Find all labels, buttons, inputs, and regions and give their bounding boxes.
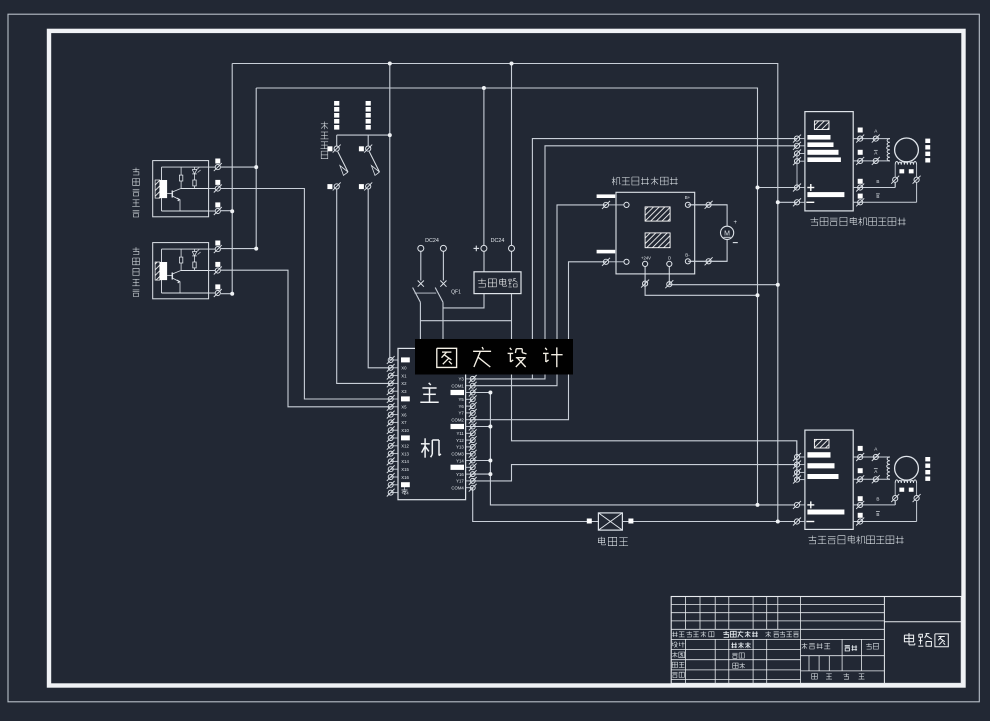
wire relay K2 row1 to bus2: [221, 248, 256, 250]
wire QF1 tie bar: [415, 292, 437, 294]
wire chip COM4 to solenoid valve to walking driver B-: [473, 488, 599, 522]
svg-text:X15: X15: [401, 467, 409, 472]
manipulator hatched block 2: [645, 233, 670, 248]
watermark box 图文设计: [415, 339, 573, 375]
chip label 主: [429, 383, 431, 385]
wire relay K1 row1 to bus2: [221, 166, 256, 168]
wire bus1 left drop to relay rows: [231, 64, 233, 294]
micro switch S1: [334, 101, 339, 106]
wire bus2 drop to DC24 terminal left: [483, 88, 485, 246]
svg-text:QF1: QF1: [451, 290, 461, 296]
svg-text:X14: X14: [401, 459, 409, 464]
title block bottom 共张第张: [812, 674, 818, 680]
svg-text:COM2: COM2: [451, 418, 464, 423]
relay module K2 (steering forward limit): [153, 243, 209, 299]
chip ground symbol: [404, 487, 406, 490]
wire microswitch top bus: [337, 134, 390, 136]
svg-text:B+: B+: [685, 195, 691, 200]
wire relay K1 row2 to chip pin X3: [221, 189, 391, 400]
wire chip Y17 to walking driver row2: [473, 465, 797, 481]
wire chip COM collector vertical: [473, 393, 795, 505]
title block grid: [671, 597, 961, 684]
relay module K1 (steering reverse limit): [153, 161, 209, 217]
wire lamp to B-: [688, 239, 727, 261]
title block left labels: [672, 641, 675, 644]
svg-text:X6: X6: [401, 412, 407, 417]
wire steering driver plus: [758, 187, 798, 189]
rectifier box 整流电路: [474, 272, 521, 294]
svg-text:Y7: Y7: [459, 411, 465, 416]
title block drawing name 电路图: [908, 633, 910, 643]
svg-text:Y6: Y6: [459, 404, 465, 409]
steering motor: [853, 138, 890, 140]
svg-text:X10: X10: [401, 428, 409, 433]
wire switch S1 drop to chip pin X2: [336, 135, 338, 146]
label 电磁阀: [601, 537, 603, 544]
label 转向反限位: [135, 168, 137, 172]
svg-text:COM3: COM3: [451, 452, 464, 457]
chip left pins: [391, 359, 398, 361]
manipulator input terminals: [603, 202, 608, 207]
wire rectifier output to walking driver in1: [512, 294, 797, 480]
wire walking rows1-4 vertical: [796, 441, 798, 480]
wire relay K2 row2 to chip pin X5: [221, 270, 391, 407]
svg-text:Y12: Y12: [456, 438, 464, 443]
svg-text:B-: B-: [685, 252, 690, 257]
svg-text:D: D: [668, 255, 671, 260]
wire chip Y3 to steering driver row2: [473, 146, 797, 379]
wire DC24+ second bus: [256, 88, 757, 505]
wire relay K1 row3 to bus1: [221, 210, 232, 212]
wire chip COM2 to manipulator in2: [473, 262, 606, 420]
wire manipulator D to minus bus: [669, 267, 777, 285]
wire QF1 pole left: [420, 251, 422, 280]
svg-text:Y16: Y16: [456, 472, 464, 477]
wire DC24- top bus: [232, 64, 778, 522]
svg-text:Y17: Y17: [456, 479, 464, 484]
main controller chip box: [398, 348, 466, 499]
svg-text:X12: X12: [401, 444, 409, 449]
svg-text:B: B: [876, 512, 879, 517]
wire QF1 pole right: [442, 251, 444, 280]
indicator lamp: [721, 226, 734, 239]
wire manipulator B+ to lamp: [688, 205, 727, 226]
svg-text:Y5: Y5: [459, 397, 465, 402]
wire bus2 left drop to relay rows: [255, 88, 257, 249]
wire chip COM1 to manipulator in1: [473, 205, 606, 386]
svg-text:M: M: [724, 231, 730, 238]
chip right pins: [466, 378, 473, 380]
title block middle labels: [732, 643, 734, 649]
wire steering driver row1 riser: [532, 139, 797, 379]
breaker QF1 cross marks: [418, 281, 424, 287]
walking stepper driver module: [805, 430, 853, 529]
solenoid valve: [587, 519, 592, 524]
svg-text:X5: X5: [401, 405, 407, 410]
micro switch S2: [366, 101, 371, 106]
chip label 机: [424, 438, 426, 457]
svg-text:Y11: Y11: [456, 431, 464, 436]
wire bus1 drop to chip pin1: [389, 64, 391, 361]
terminal DC24 left pair: [418, 245, 424, 251]
wire QF1 left pole to rectifier output line: [420, 320, 511, 322]
svg-text:DC24: DC24: [491, 238, 505, 244]
wire switch S2 drop to chip pin X0: [367, 135, 369, 146]
svg-text:X16: X16: [401, 475, 409, 480]
svg-text:X1: X1: [401, 373, 407, 378]
manipulator control module box: [616, 192, 695, 274]
svg-text:B: B: [876, 179, 879, 184]
svg-text:DC24: DC24: [425, 238, 439, 244]
terminal DC24 right pair with plus: [481, 245, 487, 251]
label 行走步进电机驱动模块: [811, 536, 813, 541]
wire QF1 right pole to rectifier: [443, 294, 484, 308]
manipulator bottom slash terminals: [643, 281, 648, 286]
svg-text:+: +: [734, 220, 738, 226]
svg-text:Y3: Y3: [459, 377, 465, 382]
svg-text:B: B: [876, 194, 879, 199]
svg-text:X3: X3: [401, 389, 407, 394]
junction dots: [388, 62, 392, 66]
svg-text:+24V: +24V: [641, 255, 651, 260]
wire steering driver minus: [778, 201, 797, 203]
svg-text:X13: X13: [401, 451, 409, 456]
title block header texts: [672, 632, 674, 637]
manipulator hatched block 1: [645, 207, 670, 221]
svg-text:Y14: Y14: [456, 458, 464, 463]
svg-text:Y13: Y13: [456, 445, 464, 450]
svg-text:X0: X0: [401, 366, 407, 371]
svg-text:B: B: [876, 496, 879, 501]
wire steering rows3-4 to plus: [796, 154, 798, 188]
svg-text:X7: X7: [401, 420, 407, 425]
wire rectifier input stubs: [483, 251, 485, 272]
label 转向正限位: [135, 247, 137, 251]
wire relay K2 row3 to bus1: [221, 293, 232, 295]
svg-text:COM4: COM4: [451, 486, 464, 491]
svg-text:COM1: COM1: [451, 384, 464, 389]
steering stepper driver module: [805, 112, 853, 211]
label 微动开关: [324, 122, 326, 130]
label 机械手控制模块: [613, 177, 615, 185]
wire COM collector stubs: [473, 426, 491, 428]
wire bus1 drop to DC24 terminal right: [511, 64, 513, 246]
title block stage labels: [803, 643, 805, 649]
walking motor: [853, 456, 890, 458]
wire manipulator +24V to plus bus: [645, 267, 758, 296]
label 转向步进电机驱动模块: [813, 217, 815, 222]
svg-text:X2: X2: [401, 381, 407, 386]
manipulator input bars: [597, 194, 616, 198]
